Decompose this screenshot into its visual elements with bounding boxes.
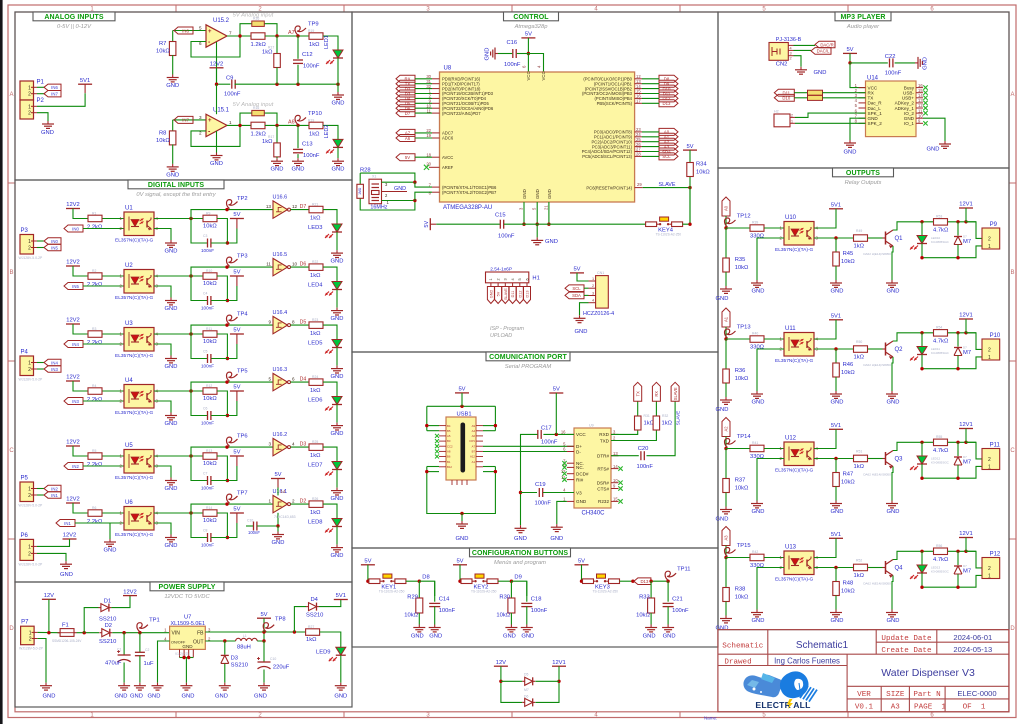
svg-text:R16: R16 [253,106,259,110]
svg-text:1kΩ: 1kΩ [310,453,321,459]
svg-text:21: 21 [543,205,548,210]
net flag DAC_R (CN2) [815,41,835,48]
ground under C13 [297,158,299,161]
svg-text:GND: GND [663,634,676,640]
optocoupler U5 [124,450,154,474]
wire Q4 emitter to ground [892,576,893,610]
wire opto U2 pin4 node [154,275,203,277]
svg-text:IN6: IN6 [182,28,189,33]
U8 pin 24 PC1(ADC1/PCINT9) [635,136,642,138]
wire KEY1 to node D8 [406,580,419,582]
svg-text:SSMD1206-105-24V: SSMD1206-105-24V [52,639,82,643]
U14 pin 5 Dac_L [859,107,866,109]
svg-text:Q3: Q3 [895,457,904,463]
wire RXD to R31 [611,430,638,434]
svg-text:GND: GND [887,618,900,624]
svg-text:CN2: CN2 [776,62,788,68]
wire R29 to ground [418,613,420,625]
svg-text:SS210: SS210 [99,639,116,645]
svg-text:R54: R54 [936,326,942,330]
svg-text:100nF: 100nF [201,364,214,369]
svg-text:2: 2 [790,57,792,61]
capacitor C8 100nF [191,513,207,538]
svg-text:R34: R34 [696,162,707,168]
wire node to buffer U16.1 [191,504,273,513]
wire D4 to 5V1 [319,600,341,607]
power flag 12V2 channel U5 [66,445,80,447]
resistor R5 2.2k [88,453,102,460]
wire U10 pin3 node [814,237,853,239]
svg-text:100nF: 100nF [504,62,521,68]
wire L1 to output node [257,632,264,641]
ground U7 [185,683,187,686]
svg-text:U16.5: U16.5 [273,252,288,258]
wire R33 to ground [650,613,652,625]
svg-text:2: 2 [988,347,991,353]
wire A2 to node [725,437,727,449]
power flag 12V (diode OR) [494,665,508,667]
power flag 12V input [42,598,56,600]
svg-text:DA62 H(E14)/S8050: DA62 H(E14)/S8050 [863,252,891,256]
svg-text:GND: GND [130,694,143,700]
resistor R30 10k [510,581,512,598]
U8 pin 15 (PCINT3/OC2A/MOSI)PB3 [635,93,642,95]
svg-text:DA62 H(E14)/S8050: DA62 H(E14)/S8050 [863,582,891,586]
svg-text:7: 7 [229,31,232,36]
wire 12V1 rail to P9 pin2 [966,222,982,239]
resistor 1k pulldown (U15.1) [276,125,278,143]
capacitor C7 100nF [191,456,207,481]
svg-text:GND: GND [923,57,929,70]
CH340C pin 10 DSR# [611,482,619,484]
ground CN1 [579,315,581,318]
capacitor C3 100nF [191,219,207,244]
wire Q4 collector to lamp rail [893,551,933,559]
svg-text:R29: R29 [407,595,418,601]
svg-text:R32: R32 [662,414,668,418]
wire IN5 to opto pin2 [83,285,124,287]
svg-text:GND: GND [331,374,344,380]
ground under R30 [510,625,512,628]
net flag IN5 channel input [64,283,83,290]
U14 pin 8 SPK_2 [859,122,866,124]
svg-text:GND: GND [521,634,534,640]
power flag 12V1 (P9) [959,207,973,209]
resistor 1k to LED (U15.1) [309,122,323,129]
CH340C pin 14 RTS# [611,468,619,470]
svg-text:A0: A0 [724,205,729,211]
svg-text:IN2: IN2 [72,464,79,469]
feedback wire U15.2 [191,24,252,57]
wire 1.2k to node A7 [265,35,309,37]
wire P7 pin1 to fuse [38,631,60,633]
svg-text:H1: H1 [532,276,539,282]
svg-text:D12: D12 [518,291,522,298]
section header COMUNICATION PORT [486,352,570,361]
svg-text:Name:: Name: [704,716,717,721]
capacitor C16 100nF [517,53,529,55]
ground Q4 [891,610,893,613]
svg-text:SLAVE: SLAVE [676,411,681,425]
wire 12V1 branch [535,666,559,702]
power flag 5V1 out [334,599,348,601]
wire CN1 pin4 to ground [580,303,589,316]
svg-text:TP13: TP13 [737,325,751,331]
svg-text:OUT: OUT [193,640,204,646]
ground USB1 [461,514,463,522]
power flag 12V2 channel U2 [66,265,80,267]
wire Q3 collector to lamp rail [893,442,933,450]
svg-text:IN3: IN3 [51,367,58,372]
svg-text:5V1: 5V1 [831,532,841,538]
test point TP1 [137,623,148,632]
svg-text:TP4: TP4 [237,312,248,318]
wire input to op-amp U15.1 [173,119,206,121]
capacitor C13 100nF [297,125,299,148]
svg-text:IN4: IN4 [51,360,58,365]
net flag A7 (U8) [396,129,415,136]
svg-text:R4: R4 [92,384,96,388]
svg-text:D13: D13 [640,579,648,584]
wire R38 to ground [725,602,727,616]
USB connector USB1 [446,417,476,480]
ground opto U5 [170,478,172,481]
svg-text:R46: R46 [843,362,854,368]
svg-text:B7: B7 [472,450,476,454]
resistor R29 10k [418,581,420,598]
svg-text:R23: R23 [312,318,318,322]
output wire U15.1 [227,124,251,126]
wire M7 to bottom rail [957,245,959,258]
wire R11 to 5V corner [217,334,227,359]
svg-text:U15.1: U15.1 [213,107,230,113]
svg-text:10kΩ: 10kΩ [841,480,855,486]
svg-text:GND: GND [165,486,178,492]
resistor R50 1k base [854,346,868,353]
svg-text:PC6(RESET#/PCINT14): PC6(RESET#/PCINT14) [586,185,632,190]
svg-text:GND: GND [43,694,56,700]
wire opto U2 pin3 to ground [154,286,171,298]
U8 pin 2 (PCINT20/XCK/T0)PD4 [432,97,440,99]
ground U7 ON/OFF [157,683,159,686]
svg-text:12V: 12V [44,593,54,599]
net flag IN7 [174,116,193,123]
wire C10 to ground [263,670,265,683]
wire U13 pin2 to ground [757,568,784,610]
svg-text:R33: R33 [639,595,650,601]
svg-text:P6: P6 [21,533,29,539]
resistor R3 2.2k [88,331,102,338]
ground under C14 [434,625,436,628]
wire op-amp U15.1 power from rail [216,84,218,114]
LED LED10 [921,222,923,236]
svg-text:TP15: TP15 [737,543,751,549]
svg-text:10kΩ: 10kΩ [735,265,749,271]
svg-text:WJ128V-5.0-2P: WJ128V-5.0-2P [19,504,43,508]
svg-text:POWER SUPPLY: POWER SUPPLY [159,584,216,591]
power flag 5V1 (P2) [78,83,92,85]
power flag 12V1 (diode OR) [552,665,566,667]
resistor 1k LED (LED3) [309,206,323,213]
svg-text:A6: A6 [405,136,411,141]
net flag A3 (U8) [659,143,678,150]
svg-text:DTR#: DTR# [597,454,609,459]
section box POWER SUPPLY [15,582,352,707]
svg-text:5V: 5V [497,291,501,296]
wire A1 to node [725,327,727,339]
svg-text:GND: GND [887,400,900,406]
svg-text:R24: R24 [312,375,318,379]
svg-text:GND: GND [271,167,284,173]
wire Q3 emitter to ground [892,467,893,501]
svg-text:M7: M7 [963,350,971,356]
svg-text:GND: GND [292,167,305,173]
svg-text:(PCINT23/AIN1)PD7: (PCINT23/AIN1)PD7 [442,111,481,116]
svg-text:GND: GND [166,83,179,89]
svg-text:FB: FB [197,631,204,637]
wire P7 pin2 to ground [38,639,46,683]
net flag D4 (U8) [396,95,415,102]
ground under LED3 [336,250,338,253]
svg-text:GND: GND [752,289,765,295]
svg-text:+: + [208,118,212,124]
resistor R38 10k [725,558,727,588]
svg-text:GND: GND [166,172,179,178]
connector P2 [20,100,34,119]
U8 pin 32 PD2(INT0/PCINT18) [432,88,440,90]
resistor R56 4.7k [934,548,948,555]
wire Q2 collector to lamp rail [893,333,933,341]
svg-text:GND: GND [716,296,729,302]
power flag 5V channel U1 [230,218,244,220]
ground under R8 [172,164,174,167]
wire U7 OUT row [205,640,235,642]
resistor R35 10k [725,228,727,258]
transistor Q4 [885,561,887,574]
H1 net flags (GND 5V SLAVE D11 D12 D13) [487,287,494,304]
regulator U7 XL1509-5.0E1 [170,626,206,649]
U8 pin 14 (PCINT2/SS#/OC1B)PB2 [635,88,642,90]
ground rotated (C22) [895,62,915,64]
svg-text:Relay Outputs: Relay Outputs [845,180,882,186]
resistor R9 10k pullup [203,215,217,222]
svg-text:1: 1 [229,120,232,125]
wire input to op-amp U15.2 [173,30,206,32]
wire 12V to rail [48,599,50,632]
svg-text:R36: R36 [735,368,746,374]
wire D2 to U7 [112,632,169,634]
output bottom rail (P10) [922,357,982,369]
svg-text:XL1509-5.0E1: XL1509-5.0E1 [171,621,205,627]
svg-text:D4: D4 [311,597,319,603]
resistor R27 1k LED9 [306,629,320,636]
crystal subcircuit wires [360,173,415,182]
svg-text:TS-1102S-A2-250: TS-1102S-A2-250 [379,590,405,594]
svg-text:ADC6: ADC6 [442,136,454,141]
wire LED6 to ground [336,405,338,423]
section box CONTROL [352,12,718,352]
power flag 12V1 (P11) [959,428,973,430]
net flag TX [634,382,642,401]
wire R5 to opto U5 pin1 [103,455,125,457]
wire P1 pin1 to IN6 flag [37,86,44,88]
wire R32 to RX flag [655,401,657,415]
svg-text:C8: C8 [203,529,207,533]
svg-text:100nF: 100nF [885,71,902,77]
U14 pin 16 Busy [916,87,923,89]
wire U7 GND pins to ground [185,658,187,683]
net flag D12 (U8) [659,95,678,102]
svg-text:SPK_2: SPK_2 [868,121,883,126]
connector P4 [20,356,34,376]
connector P10 [982,339,1000,360]
svg-text:Q2: Q2 [895,347,904,353]
svg-text:IN5: IN5 [72,284,79,289]
wire USB1 VBUS rails [427,425,439,427]
ground U14 left [849,140,851,143]
svg-text:10kΩ: 10kΩ [203,461,217,467]
frame row tick left [8,360,15,362]
wire 4.7k to 12V1 node [948,332,976,334]
wire LED4 to ground [336,290,338,308]
svg-text:1kΩ: 1kΩ [310,388,321,394]
wire opto U6 pin2 to ground [109,523,111,539]
USB1 shield stubs [451,480,453,485]
ground U6 pin2 [109,539,111,542]
ground under D3 [224,683,226,686]
svg-text:U6: U6 [125,500,133,506]
ground under P2 [47,121,49,124]
transistor Q1 [885,232,887,245]
resistor R14 10k pullup [203,510,217,517]
wire USB D+ to CH340 [483,445,574,447]
svg-text:5: 5 [268,377,271,382]
test point TP13 [725,329,736,338]
svg-text:2.2kΩ: 2.2kΩ [87,340,103,346]
svg-text:U11: U11 [785,326,796,332]
svg-text:Ing Carlos Fuentes: Ing Carlos Fuentes [774,656,840,665]
ground under LED6 [336,423,338,426]
svg-text:IO_1: IO_1 [904,121,914,126]
svg-text:U3: U3 [125,321,133,327]
svg-text:Menús and program: Menús and program [494,560,546,566]
feedback wire U15.1 [191,113,252,146]
svg-text:SLAVE: SLAVE [504,288,508,300]
svg-text:IN7: IN7 [51,92,58,97]
wire opto U5 pin3 to ground [154,466,171,478]
ground under LED8 [336,545,338,548]
schmitt buffer U16.6 [273,201,288,218]
svg-text:1: 1 [28,104,31,110]
connector P3 [20,235,34,255]
svg-text:8: 8 [292,320,295,325]
wire opto U1 pin4 node [154,218,203,220]
net flag A2 (U8) [659,138,678,145]
test point TP11 [665,571,676,580]
svg-text:R5: R5 [92,449,96,453]
svg-text:5V: 5V [364,559,371,565]
svg-text:C20: C20 [638,446,649,452]
resistor R6 2.2k [88,510,102,517]
svg-text:AREF: AREF [442,165,454,170]
svg-text:A12: A12 [470,455,475,459]
svg-text:Q1: Q1 [895,236,904,242]
wire A3 to node [725,546,727,558]
svg-text:5: 5 [518,278,522,280]
svg-text:P11: P11 [990,443,1001,449]
capacitor C10 220uF [263,641,265,662]
svg-text:TP8: TP8 [275,617,286,623]
svg-text:Serial PROGRAM: Serial PROGRAM [505,364,552,370]
wire to LED LED6 [323,382,337,396]
power flag 12V1 (P10) [959,318,973,320]
svg-text:D4: D4 [300,377,307,383]
svg-text:1: 1 [28,239,31,245]
svg-text:PC5(ADC5/SCL/PCINT13): PC5(ADC5/SCL/PCINT13) [582,154,632,159]
LED LED12 [921,442,923,456]
ground opto U6 [170,535,172,538]
capacitor C21 100nF [667,581,669,602]
svg-text:DIGITAL INPUTS: DIGITAL INPUTS [148,182,205,189]
svg-text:2: 2 [28,92,31,98]
svg-text:PB5(SCK/PCINT5): PB5(SCK/PCINT5) [597,101,633,106]
svg-text:10kΩ: 10kΩ [696,170,710,176]
wire U7 FB row [205,631,306,633]
wire R1 to opto U1 pin1 [103,218,125,220]
svg-text:ELECTR ALL: ELECTR ALL [755,700,810,710]
U14 pin 12 ADKey_1 [916,107,923,109]
svg-text:GND: GND [429,634,442,640]
svg-text:LED2: LED2 [324,125,330,139]
wire LED10 to bottom rail [921,244,923,258]
svg-text:Atmega328p: Atmega328p [514,24,549,30]
svg-text:1.2kΩ: 1.2kΩ [251,42,267,48]
svg-text:10kΩ: 10kΩ [156,138,170,144]
resistor R4 2.2k [88,388,102,395]
schmitt buffer U16.3 [273,373,288,390]
svg-text:IN0: IN0 [72,226,79,231]
resistor R49 1k base [854,235,868,242]
test point TP15 [725,548,736,557]
svg-text:ISP - Program: ISP - Program [490,326,524,332]
ground U10 pin2 [756,280,758,283]
svg-text:100nF: 100nF [531,608,548,614]
svg-text:4.7kΩ: 4.7kΩ [933,557,949,563]
diode D3 SS210 freewheel [224,641,226,655]
U8 pin 18 AVCC [432,156,440,158]
svg-text:C3: C3 [203,234,207,238]
svg-text:OUTPUTS: OUTPUTS [846,170,880,177]
svg-text:5V1: 5V1 [831,423,841,429]
svg-text:CH340C: CH340C [582,511,606,517]
svg-text:5V: 5V [458,387,465,393]
svg-text:TP14: TP14 [737,434,752,440]
wire IN2 to opto pin2 [83,465,124,467]
wire C17 left to ground rail [521,434,538,525]
section header ANALOG INPUTS [33,12,115,21]
inductor L1 88uH [236,638,258,641]
ground analog rail [337,84,339,92]
svg-text:LED5: LED5 [308,341,323,347]
svg-text:2: 2 [28,493,31,499]
svg-text:GND: GND [331,496,344,502]
svg-text:USB1: USB1 [457,412,472,418]
power flag 5V rotated (C15) [429,218,431,230]
svg-text:100nF: 100nF [303,64,320,70]
ground under R48 [835,610,837,613]
svg-text:AVCC: AVCC [442,155,453,160]
wire 5V to CN1 pin1 [577,273,589,281]
